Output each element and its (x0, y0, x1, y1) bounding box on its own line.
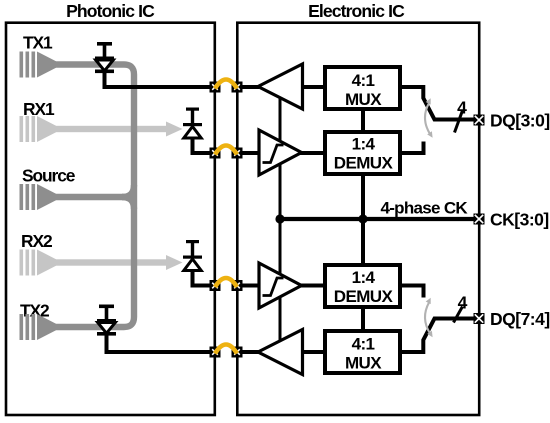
TX2 modulator diode (97, 305, 116, 336)
svg-text:DEMUX: DEMUX (334, 287, 394, 306)
wire RX1 pad to amp A2 (237, 151, 260, 155)
wire RX1 photodiode to bond pad (193, 138, 216, 153)
svg-text:Electronic IC: Electronic IC (308, 1, 405, 21)
svg-text:4-phase CK: 4-phase CK (380, 199, 468, 218)
port pad DQ[7:4] (474, 313, 485, 324)
svg-text:1:4: 1:4 (352, 135, 376, 154)
bond pad TX1 right (232, 82, 243, 93)
mux-demux chain vertical wire (361, 108, 365, 332)
op-amp A1 TX1 driver (258, 64, 303, 109)
wire DEMUX1 stub (400, 142, 424, 154)
RX2 photodiode (183, 240, 202, 271)
electronic IC box (237, 23, 479, 415)
RX2 waveguide (55, 259, 167, 265)
wire RX2 pad to amp A3 (237, 284, 260, 288)
block 1:4 DEMUX U3 (325, 265, 400, 307)
svg-text:4: 4 (457, 98, 467, 118)
op-amp A4 TX2 driver (258, 330, 303, 375)
amp A3 hysteresis mark (263, 278, 284, 296)
RX2 grating coupler (20, 250, 57, 276)
wire MUX1 to DQ switch (400, 87, 475, 120)
bond pad TX1 left (210, 82, 221, 93)
svg-text:Photonic IC: Photonic IC (66, 1, 155, 21)
RX1 photodiode (183, 108, 202, 139)
bond wire RX1 (215, 146, 237, 155)
junction dot right (358, 214, 367, 223)
Y junction upper fillet (122, 185, 134, 197)
switch toggle arrow bottom (425, 298, 433, 337)
svg-text:1:4: 1:4 (352, 268, 376, 287)
wire TX2 pad to amp A4 (237, 350, 259, 354)
bond pad RX2 left (210, 280, 221, 291)
switch toggle arrow top (425, 98, 433, 137)
bus slash DQ[3:0] (455, 111, 463, 133)
wire amp A4 to MUX2 (302, 350, 325, 354)
svg-text:DQ[3:0]: DQ[3:0] (490, 111, 550, 131)
bond pad TX2 right (232, 347, 243, 358)
TX2 grating coupler (20, 314, 57, 340)
clock chain vertical wire (279, 92, 282, 345)
svg-text:DEMUX: DEMUX (334, 154, 394, 173)
svg-text:MUX: MUX (345, 354, 382, 373)
bond wire TX1 (215, 80, 237, 89)
bus slash DQ[7:4] (454, 307, 463, 323)
port pad CK[3:0] (474, 214, 485, 225)
wire DEMUX2 stub (400, 286, 424, 298)
svg-text:4:1: 4:1 (352, 71, 375, 90)
RX1 light arrow (166, 122, 183, 137)
svg-text:4:1: 4:1 (352, 335, 375, 354)
TX1 grating coupler (20, 52, 57, 78)
svg-text:CK[3:0]: CK[3:0] (490, 210, 549, 230)
Y junction lower fillet (122, 197, 134, 209)
block 4:1 MUX U1 (325, 67, 400, 109)
wire TX1 pad to amp A1 (237, 85, 259, 89)
bond pad RX2 right (232, 280, 243, 291)
wire TX2 modulator to bond pad (107, 334, 216, 353)
amp A2 hysteresis mark (263, 145, 284, 163)
svg-text:MUX: MUX (345, 90, 382, 109)
block 1:4 DEMUX U2 (325, 132, 400, 174)
wire RX2 photodiode to bond pad (193, 271, 216, 286)
photonic IC box (6, 23, 215, 415)
Source grating coupler (20, 184, 57, 210)
bond wire TX2 (215, 345, 237, 354)
bond pad TX2 left (210, 347, 221, 358)
source waveguide (55, 194, 126, 200)
TX1 modulator diode (95, 42, 114, 73)
wire amp A1 to MUX1 (302, 85, 325, 89)
op-amp A2 RX1 receiver (259, 130, 302, 175)
bond pad RX1 right (232, 148, 243, 159)
svg-text:TX1: TX1 (23, 33, 53, 53)
wire TX1 modulator to bond pad (105, 71, 216, 87)
wire MUX2 to DQ switch (400, 319, 475, 353)
waveguide TX1 to TX2 routing (55, 65, 134, 328)
junction dot left (275, 214, 284, 223)
svg-text:Source: Source (22, 166, 76, 186)
RX1 waveguide (55, 126, 167, 132)
bond wire RX2 (215, 278, 237, 287)
block 4:1 MUX U4 (325, 331, 400, 373)
port pad DQ[3:0] (474, 115, 485, 126)
RX2 light arrow (166, 255, 183, 270)
4-phase CK wire (280, 217, 479, 221)
RX1 grating coupler (20, 116, 57, 142)
wire amp A2 to DEMUX1 (300, 151, 325, 155)
bond pad RX1 left (210, 148, 221, 159)
svg-text:DQ[7:4]: DQ[7:4] (490, 309, 550, 329)
wire amp A3 to DEMUX2 (300, 284, 325, 288)
svg-text:4: 4 (458, 293, 468, 313)
svg-text:RX2: RX2 (21, 231, 52, 251)
op-amp A3 RX2 receiver (259, 263, 302, 308)
